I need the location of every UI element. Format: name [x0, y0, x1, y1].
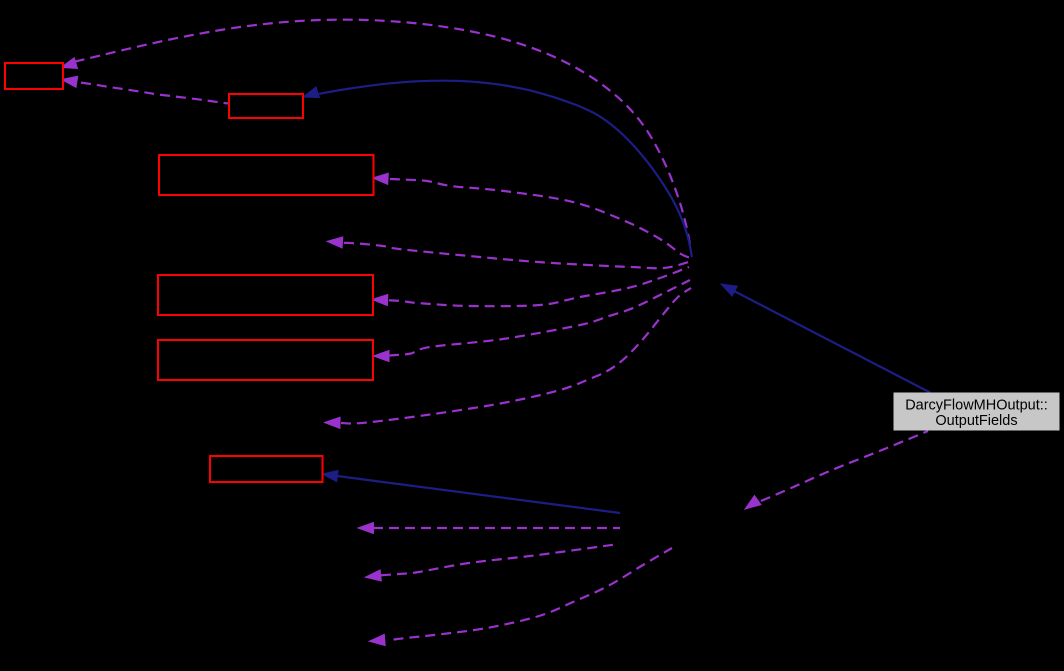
edge: EquationOutput hub to node 2 (solid midnightblue): [303, 81, 692, 257]
edge: lower hub to hidden node (dashed darkorchid): [358, 522, 620, 533]
edge: hub to node 5 (dashed darkorchid): [374, 280, 691, 362]
node 5 (red box): [158, 340, 373, 380]
edge: lower hub to hidden node (dashed darkorchid): [369, 548, 672, 646]
node 2 (red box): [229, 94, 303, 118]
edge: DarcyFlowMHOutput::OutputFields to lower hub (dashed darkorchid): [745, 431, 928, 509]
svg-text:OutputFields: OutputFields: [935, 413, 1017, 429]
edge: lower hub to node 6 (solid midnightblue): [322, 471, 620, 514]
edge: node 2 to node 1 (dashed darkorchid): [62, 76, 229, 103]
node DarcyFlowMHOutput::OutputFields (grey filled box): [894, 393, 1059, 430]
edge: hub to node 4 (dashed darkorchid): [372, 267, 689, 306]
edge: EquationOutput hub to node 1 (top arc, dashed darkorchid): [61, 20, 691, 250]
node 4 (red box): [158, 275, 373, 315]
edge: hub to hidden node (dashed darkorchid): [327, 237, 689, 268]
svg-text:DarcyFlowMHOutput::: DarcyFlowMHOutput::: [905, 397, 1048, 413]
node 1 (red box): [5, 63, 63, 89]
node 3 (red box): [159, 155, 374, 195]
node 6 (red box): [210, 456, 323, 482]
edge: lower hub to hidden node (dashed darkorchid): [365, 544, 619, 581]
edge: hub to hidden node (dashed darkorchid): [325, 288, 692, 428]
edge: DarcyFlowMHOutput::OutputFields to hub (solid midnightblue): [721, 284, 930, 393]
edge: hub to node 3 (dashed darkorchid): [373, 173, 692, 258]
